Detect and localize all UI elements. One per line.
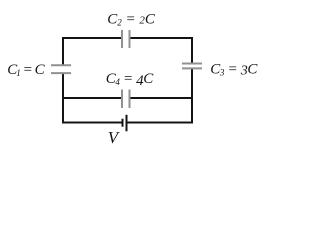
- wire bottom-left segment: [62, 122, 122, 124]
- wire middle-right segment: [131, 97, 194, 99]
- battery V long plate: [126, 115, 128, 132]
- battery V short plate: [122, 119, 124, 127]
- capacitor C1 plates: [51, 65, 71, 73]
- wire bottom-right segment: [128, 122, 194, 124]
- wire top-right segment: [131, 37, 194, 39]
- wire right vertical lower: [191, 68, 193, 123]
- wire left vertical upper: [62, 37, 64, 65]
- wire top-left segment: [62, 37, 121, 39]
- svg-text:C4 = 4C: C4 = 4C: [106, 71, 155, 89]
- capacitor C4 plates: [122, 90, 130, 109]
- svg-text:C2 = 2C: C2 = 2C: [107, 12, 156, 28]
- wire right vertical upper: [191, 37, 193, 64]
- capacitor C2 plates: [122, 30, 130, 48]
- svg-text:C3 = 3C: C3 = 3C: [210, 62, 258, 79]
- wire middle-left segment: [62, 97, 121, 99]
- wire left vertical lower: [62, 73, 64, 124]
- capacitor C3 plates: [182, 64, 202, 69]
- svg-text:C1 = C: C1 = C: [7, 62, 45, 78]
